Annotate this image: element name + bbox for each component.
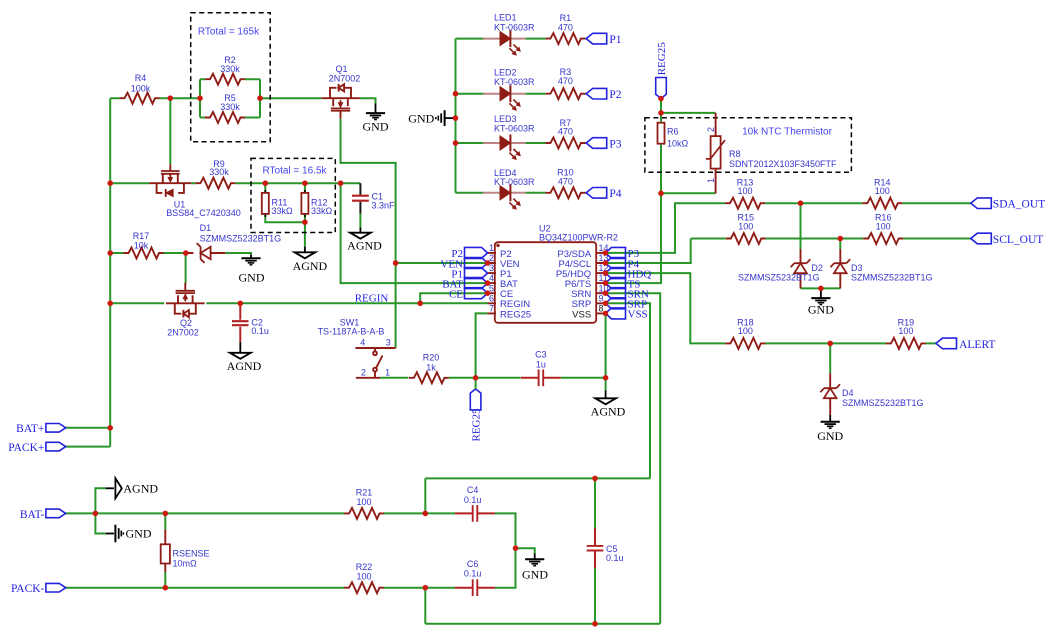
svg-text:330k: 330k (220, 64, 240, 74)
resistor R13 (725, 177, 765, 208)
svg-text:Q1: Q1 (335, 64, 347, 74)
ground AGND under C2 (227, 353, 262, 373)
dashed box 10k NTC Thermistor (645, 118, 852, 173)
ground GND at C4 C6 (522, 554, 548, 582)
svg-text:RTotal = 16.5k: RTotal = 16.5k (262, 166, 327, 177)
transistor Q2 2N7002 (166, 283, 205, 338)
svg-text:AGND: AGND (347, 238, 382, 252)
svg-text:0.1u: 0.1u (606, 553, 624, 563)
svg-text:PACK-: PACK- (11, 583, 45, 595)
svg-text:470: 470 (558, 22, 573, 32)
wire GND branch C4 C6 (516, 548, 535, 553)
net label VSS pin8 (606, 308, 648, 321)
svg-text:100: 100 (738, 221, 753, 231)
svg-text:1: 1 (385, 368, 390, 378)
LED4 (483, 168, 535, 209)
svg-text:100k: 100k (131, 84, 151, 94)
svg-text:REG25: REG25 (500, 309, 531, 320)
svg-text:Q2: Q2 (180, 318, 192, 328)
svg-text:BAT-: BAT- (20, 509, 45, 521)
resistor R17 (124, 231, 164, 259)
port SDA_OUT (971, 198, 1045, 211)
diode D1 zener (186, 223, 281, 263)
svg-text:GND: GND (363, 120, 389, 134)
svg-text:D3: D3 (851, 263, 863, 273)
resistor R9 (195, 159, 235, 189)
svg-text:10k NTC Thermistor: 10k NTC Thermistor (742, 127, 833, 138)
svg-text:REGIN: REGIN (355, 292, 389, 304)
svg-text:LED2: LED2 (494, 68, 517, 78)
diode D3 zener (831, 249, 933, 288)
LED2 (483, 68, 535, 111)
U2 pin names left (500, 249, 531, 321)
svg-text:RTotal = 165k: RTotal = 165k (198, 27, 260, 38)
svg-text:D1: D1 (200, 223, 212, 233)
wire LED rail (455, 39, 457, 193)
port ALERT (936, 338, 995, 351)
svg-text:RSENSE: RSENSE (173, 549, 210, 559)
ground AGND under R11 R12 (293, 247, 328, 273)
svg-text:KT-0603R: KT-0603R (494, 124, 535, 134)
U2 pin numbers left (489, 243, 494, 314)
svg-text:R4: R4 (135, 73, 147, 83)
svg-text:C4: C4 (467, 485, 479, 495)
svg-text:GND: GND (408, 112, 434, 126)
capacitor C6 (455, 559, 495, 596)
port PACK+ (8, 442, 65, 454)
diode D4 zener (820, 373, 923, 421)
wire P4 SCL row (606, 239, 971, 264)
svg-text:KT-0603R: KT-0603R (494, 22, 535, 32)
resistor RSENSE (161, 530, 210, 573)
resistor R11 (262, 190, 293, 217)
svg-text:P3: P3 (609, 138, 621, 150)
svg-text:D2: D2 (811, 263, 823, 273)
ground GND at D1 (239, 255, 265, 285)
wire R17 D1 row (110, 253, 251, 255)
U2 pin stubs right (596, 253, 605, 314)
wire D2 D3 to GND (801, 203, 841, 288)
svg-text:KT-0603R: KT-0603R (494, 77, 535, 87)
svg-text:1: 1 (706, 178, 716, 183)
net label CE pin5 (449, 288, 488, 301)
svg-text:2N7002: 2N7002 (167, 328, 199, 338)
U2 pin numbers right (599, 243, 609, 314)
net label P1 pin3 (451, 268, 487, 281)
svg-text:SZMMSZ5232BT1G: SZMMSZ5232BT1G (842, 398, 924, 408)
svg-text:33kΩ: 33kΩ (272, 206, 294, 216)
port REG25 down (470, 378, 482, 442)
svg-text:1k: 1k (426, 362, 436, 372)
wire LED rows (456, 39, 587, 193)
net label SRN pin10 (606, 288, 649, 301)
power flag AGND at BAT- (106, 478, 159, 498)
port P4 (586, 188, 622, 201)
svg-text:AGND: AGND (227, 359, 262, 373)
svg-text:VSS: VSS (572, 309, 591, 320)
port SCL_OUT (971, 233, 1043, 246)
resistor R14 (862, 177, 902, 208)
wire P3 SDA row (606, 203, 971, 253)
U2 pin names right (556, 249, 592, 321)
wire left rail BAT+ (66, 98, 111, 446)
switch SW1 (355, 348, 395, 378)
svg-text:10mΩ: 10mΩ (173, 559, 198, 569)
resistor R5 (205, 93, 245, 123)
switch SW1 labels (318, 318, 391, 378)
svg-text:AGND: AGND (123, 481, 158, 495)
svg-text:P2: P2 (609, 89, 621, 101)
svg-text:33kΩ: 33kΩ (311, 206, 333, 216)
svg-text:0.1u: 0.1u (464, 569, 482, 579)
svg-text:100: 100 (875, 186, 890, 196)
svg-text:GND: GND (817, 429, 843, 443)
svg-text:100: 100 (738, 326, 753, 336)
svg-text:TS-1187A-B-A-B: TS-1187A-B-A-B (318, 327, 385, 337)
power flag GND at BAT- (106, 525, 152, 543)
svg-text:BQ34Z100PWR-R2: BQ34Z100PWR-R2 (539, 232, 618, 242)
port PACK- (11, 583, 66, 595)
port BAT+ (16, 423, 66, 435)
wire RSENSE leads (164, 513, 166, 587)
svg-text:R17: R17 (133, 231, 150, 241)
wire REG25 to R6 R8 node (606, 99, 716, 284)
wire Q1 drain to GND (360, 98, 376, 103)
wire PACK- row (66, 548, 516, 624)
svg-text:BSS84_C7420340: BSS84_C7420340 (166, 208, 241, 218)
svg-text:VSS: VSS (628, 309, 648, 321)
svg-text:4: 4 (360, 338, 365, 348)
ground AGND under C1 (347, 228, 382, 253)
port P1 (586, 33, 622, 46)
svg-text:0.1u: 0.1u (251, 326, 269, 336)
svg-text:3: 3 (489, 263, 494, 273)
svg-text:470: 470 (558, 76, 573, 86)
wire VSS to AGND (605, 313, 607, 390)
svg-text:100: 100 (737, 186, 752, 196)
svg-text:100: 100 (356, 571, 371, 581)
svg-text:470: 470 (558, 176, 573, 186)
svg-text:2: 2 (706, 127, 716, 132)
resistor R19 (886, 318, 926, 349)
resistor R2 (205, 55, 245, 85)
svg-text:7: 7 (489, 304, 494, 314)
dashed box RTotal 16.5k (251, 158, 335, 232)
net label VEN pin2 (440, 258, 487, 271)
resistor R21 (344, 488, 384, 519)
svg-text:2: 2 (361, 368, 366, 378)
svg-text:3: 3 (386, 338, 391, 348)
resistor R1 (545, 13, 585, 44)
svg-text:SZMMSZ5232BT1G: SZMMSZ5232BT1G (851, 273, 933, 283)
net label P4 pin13 (606, 258, 640, 271)
svg-text:1u: 1u (536, 359, 546, 369)
net label P2 pin1 (451, 247, 487, 260)
ground GND at D2 D3 (808, 288, 834, 316)
svg-text:10k: 10k (134, 241, 149, 251)
svg-text:GND: GND (808, 303, 834, 317)
svg-text:SDA_OUT: SDA_OUT (993, 199, 1045, 211)
wire HDQ ALERT row (606, 273, 937, 343)
transistor U1 BSS84 (149, 98, 240, 218)
dashed box RTotal 165k (191, 13, 271, 142)
svg-text:SCL_OUT: SCL_OUT (993, 234, 1043, 246)
svg-text:PACK+: PACK+ (8, 442, 44, 454)
wire R4 row (110, 97, 200, 99)
svg-text:BAT+: BAT+ (16, 423, 44, 435)
ground GND flag at LED rail (408, 110, 455, 126)
svg-text:R20: R20 (423, 353, 440, 363)
capacitor C3 (521, 349, 561, 386)
svg-text:KT-0603R: KT-0603R (494, 177, 535, 187)
net label BAT pin4 (442, 278, 487, 291)
net label P3 pin14 (606, 247, 640, 260)
svg-text:AGND: AGND (293, 259, 328, 273)
svg-text:LED1: LED1 (494, 13, 517, 23)
thermistor R8 (706, 113, 837, 193)
svg-text:P4: P4 (609, 188, 621, 200)
port P3 (586, 138, 622, 151)
svg-text:GND: GND (239, 271, 265, 285)
resistor R10 (545, 168, 585, 199)
svg-text:3.3nF: 3.3nF (372, 201, 396, 211)
svg-text:330k: 330k (209, 167, 229, 177)
svg-text:2N7002: 2N7002 (329, 74, 361, 84)
wire divider row U1 R9 R11 R12 C1 (110, 182, 360, 184)
net label REGIN (355, 292, 389, 304)
svg-text:P1: P1 (609, 34, 621, 46)
resistor R6 (658, 123, 689, 149)
svg-text:AGND: AGND (591, 405, 626, 419)
port REG25 top (656, 42, 668, 99)
wire R20 C3 row (380, 377, 605, 379)
svg-text:REG25: REG25 (471, 408, 483, 442)
svg-text:C6: C6 (467, 559, 479, 569)
wire BAT sense branch (341, 183, 488, 283)
svg-text:1: 1 (489, 243, 494, 253)
svg-text:D4: D4 (842, 388, 854, 398)
svg-text:100: 100 (356, 497, 371, 507)
svg-text:10kΩ: 10kΩ (667, 139, 689, 149)
LED3 (483, 114, 535, 159)
svg-text:0.1u: 0.1u (464, 495, 482, 505)
IC U2 BQ34Z100PWR-R2 body (495, 223, 618, 322)
svg-text:ALERT: ALERT (959, 339, 995, 351)
ground AGND at VSS C3 (591, 391, 626, 419)
capacitor C4 (455, 485, 495, 522)
svg-text:9: 9 (599, 293, 604, 303)
svg-text:SDNT2012X103F3450FTF: SDNT2012X103F3450FTF (729, 159, 837, 169)
wire REGIN row (110, 302, 487, 304)
wire R2 R5 parallel loop (200, 79, 321, 117)
svg-text:C3: C3 (535, 349, 547, 359)
wire BAT- row (66, 478, 516, 548)
capacitor C1 (352, 183, 395, 227)
svg-text:100: 100 (876, 221, 891, 231)
wire D4 branch (829, 343, 831, 373)
wire REG25 pin7 (476, 313, 488, 377)
wire R11 R12 bottom to AGND (265, 183, 305, 247)
svg-text:CE: CE (449, 289, 463, 301)
ground GND at D4 (817, 422, 843, 443)
resistor R15 (726, 213, 766, 244)
resistor R12 (301, 190, 332, 217)
ground GND at Q1 (363, 104, 389, 134)
wire AGND GND flags BAT- (95, 488, 105, 533)
capacitor C2 (232, 303, 269, 353)
wire CE jog (420, 293, 487, 303)
svg-text:R8: R8 (729, 149, 741, 159)
resistor R3 (545, 67, 585, 99)
svg-text:REG25: REG25 (656, 42, 668, 76)
resistor R7 (545, 118, 585, 149)
svg-text:R6: R6 (667, 127, 679, 137)
svg-text:8: 8 (599, 304, 604, 314)
port P2 (586, 88, 622, 101)
net label TS pin11 (606, 278, 641, 291)
wire C5 top row (425, 478, 660, 623)
svg-text:GND: GND (126, 527, 152, 541)
wire Q2 gate (185, 253, 187, 283)
wire Q1 gate to VEN / SW1 node (341, 119, 488, 348)
resistor R4 (120, 73, 160, 104)
U2 pin stubs left (488, 253, 497, 314)
LED1 (483, 13, 535, 55)
capacitor C5 (587, 528, 624, 568)
wire SRN riser (606, 293, 661, 624)
wire SRP riser (606, 303, 651, 478)
net label SRP pin9 (606, 298, 648, 311)
resistor R16 (863, 213, 903, 244)
svg-text:6: 6 (489, 293, 494, 303)
svg-text:SZMMSZ5232BT1G: SZMMSZ5232BT1G (200, 234, 282, 244)
resistor R22 (344, 562, 384, 593)
svg-text:470: 470 (558, 127, 573, 137)
svg-text:100: 100 (898, 326, 913, 336)
diode D2 zener (738, 249, 823, 288)
port BAT- (20, 509, 66, 521)
net label HDQ pin12 (606, 268, 652, 281)
svg-text:GND: GND (522, 568, 548, 582)
svg-text:SZMMSZ5232BT1G: SZMMSZ5232BT1G (738, 273, 820, 283)
resistor R20 (409, 353, 449, 384)
resistor R18 (725, 318, 765, 349)
svg-text:330k: 330k (220, 102, 240, 112)
transistor Q1 2N7002 (321, 64, 360, 119)
